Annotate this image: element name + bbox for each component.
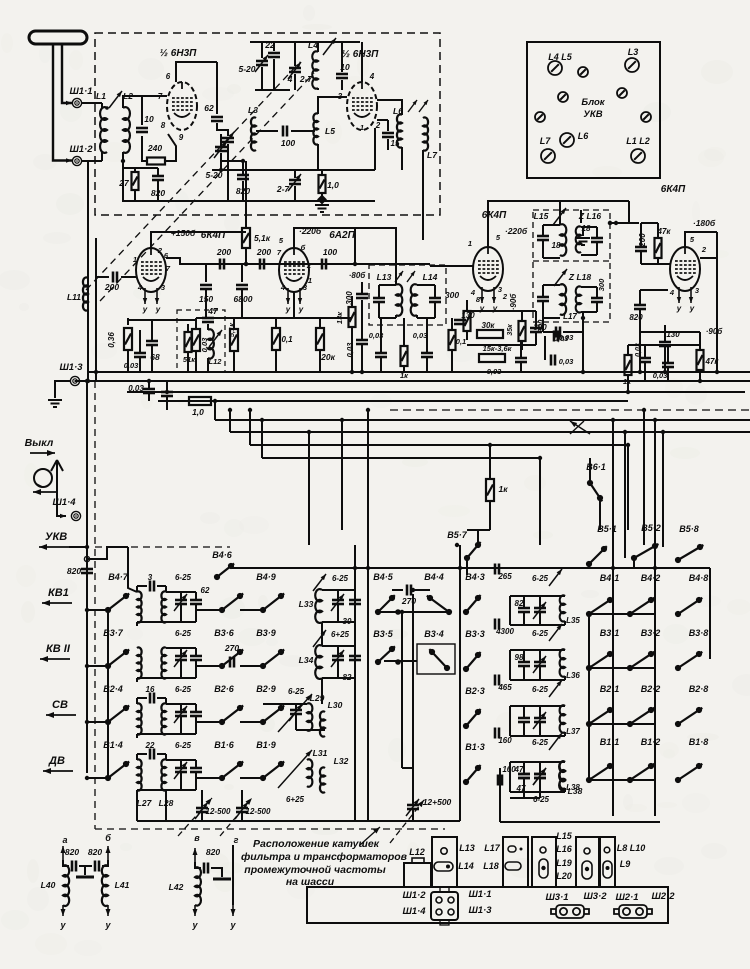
wire AGC line [95,238,97,330]
wire top rail [250,41,360,43]
trimmer arrow [174,594,187,611]
svg-text:у: у [191,920,198,930]
svg-text:20к: 20к [320,352,335,362]
wire [542,318,544,332]
junction [353,566,357,570]
wire [56,474,58,516]
svg-text:160: 160 [498,736,512,745]
svg-text:½ 6Н3П: ½ 6Н3П [160,48,197,59]
wire [40,656,70,662]
wire [588,566,590,568]
coil L11 [83,277,88,310]
wire [137,789,196,791]
capacitor [639,358,651,362]
capacitor [146,341,158,345]
wire [308,432,310,545]
capacitor [95,861,99,872]
junction [608,221,612,225]
box can 4 [576,837,599,887]
wire L3 to 100 [256,130,278,132]
tube cathode/heater arrows [677,287,693,303]
wire [139,357,141,372]
wire [296,703,307,705]
wire [539,458,541,545]
coil L33 [315,589,322,623]
wire [139,330,141,353]
wire cathode rail [128,319,196,321]
svg-text:12-500: 12-500 [206,807,231,816]
svg-text:6-25: 6-25 [532,738,549,747]
switch В2·2 [627,707,654,727]
wire 100 to L5 [291,130,315,132]
screw [578,67,588,77]
wire [220,153,222,170]
svg-text:100: 100 [281,138,295,148]
wire [539,706,541,718]
svg-text:8: 8 [161,121,166,130]
svg-text:Блок: Блок [581,97,605,108]
wire [582,228,584,236]
dashed gang arrow 12-500 a [178,798,212,836]
svg-text:Z L18: Z L18 [568,272,591,282]
svg-text:·220б: ·220б [505,226,528,236]
switch В2·8 [675,707,702,727]
svg-text:L3: L3 [628,47,639,57]
svg-text:Расположение катушек: Расположение катушек [253,838,380,850]
wire coil-cap bus [354,545,356,821]
tube cathode/heater arrows [480,287,496,303]
coil L17 [560,284,566,315]
capacitor [554,331,558,342]
svg-text:300: 300 [445,290,459,300]
coil L7 [423,117,428,150]
wire [322,677,355,679]
svg-text:СВ: СВ [52,699,68,711]
wire to ground [55,381,70,398]
svg-text:В3·7: В3·7 [103,628,124,638]
arrow down [61,905,66,916]
wire [466,560,468,575]
svg-text:16: 16 [146,685,155,694]
junction [86,379,90,383]
trimmer arrow [553,208,566,225]
wire L5 bottom [317,144,319,170]
junction [85,379,89,383]
svg-text:47: 47 [207,306,219,316]
svg-text:L40: L40 [41,880,56,890]
oval [603,861,612,878]
svg-text:б: б [105,833,111,843]
phone jack symbol [34,460,63,487]
svg-text:у: у [59,920,66,930]
wire plate V4 [685,232,717,247]
wire [166,396,168,410]
svg-text:5,1к: 5,1к [254,233,271,243]
wire [261,67,263,90]
wire band feed [86,381,88,773]
wire [564,732,566,736]
trimmer capacitor [534,718,546,722]
svg-text:В3·8: В3·8 [689,628,709,638]
wire row link [589,613,655,615]
screw L1 L2 [631,149,645,163]
wire [180,604,182,622]
wire [42,600,72,606]
capacitor 270 [230,657,234,668]
coil L38 [559,761,565,790]
svg-text:L1 L2: L1 L2 [626,136,650,146]
oval [582,861,592,879]
capacitor [634,305,646,309]
junction [455,543,459,547]
dashed box VHF unit [95,33,440,215]
wire [166,647,196,649]
switch В3·1 [586,651,613,671]
wire [136,754,138,760]
junction [715,370,719,374]
wire [180,592,182,600]
wire [523,666,525,680]
capacitor [537,297,549,301]
switch В3·8 [675,651,702,671]
wire bus [250,444,628,446]
wire [273,42,275,51]
svg-text:·90б: ·90б [509,293,518,311]
wire bus [230,431,750,433]
wire [180,760,182,768]
svg-text:12+500: 12+500 [423,797,452,807]
switch В2·3 [463,709,481,729]
wire [165,754,167,760]
switch В4·1 [586,597,613,617]
coil L4 [312,51,318,88]
screw L6 [560,133,574,147]
wire [378,302,380,318]
box L12 can [404,863,431,887]
hole [604,847,610,853]
wire [221,160,243,162]
capacitor [551,355,555,366]
wire [136,622,138,626]
wire [523,762,525,774]
capacitor [635,247,647,251]
wire [195,704,197,712]
svg-text:В2·8: В2·8 [689,684,709,694]
svg-text:В2·9: В2·9 [256,684,276,694]
capacitor 100 [322,259,326,270]
wire [640,289,668,291]
trimmer arrow [313,574,326,591]
wire [136,678,138,682]
wire [57,505,66,516]
svg-text:4: 4 [669,288,675,297]
wire L7 down out of box [422,150,424,240]
trimmer arrow [214,141,227,158]
junction [638,370,642,374]
wire [101,103,103,108]
coil L34 [315,645,322,679]
junction [608,221,612,225]
wire [582,312,584,372]
coil L31 [307,759,312,786]
trimmer arrow [288,174,301,191]
wire [321,678,323,704]
wire [509,762,511,792]
svg-text:В1·9: В1·9 [256,740,276,750]
wire [543,284,560,286]
ground bar [76,876,94,879]
coil L18 [576,286,581,312]
wire [136,734,138,738]
wire [664,325,666,342]
svg-text:6-25: 6-25 [288,687,305,696]
trimmer arrow [554,269,567,286]
wire [699,332,701,350]
svg-text:200: 200 [256,247,271,257]
svg-text:В4·6: В4·6 [212,550,233,560]
box can 3 [532,837,556,887]
wire [412,768,414,805]
wire [136,586,138,592]
wire г line [232,845,234,905]
wire [165,586,167,592]
svg-text:L30: L30 [328,700,343,710]
ground [315,205,329,212]
wire [127,350,129,372]
arrow on dashed edge [360,827,380,845]
connector Ш3 [551,905,589,918]
wire УКВ to L21 [128,547,137,592]
wire [434,285,436,298]
wire [101,152,103,161]
wire [581,311,597,313]
svg-text:35к: 35к [507,324,514,336]
wire [539,762,541,774]
coil L16 [576,226,581,252]
wire [499,768,501,822]
wire [43,768,73,774]
capacitor [518,718,530,722]
svg-text:L27: L27 [137,798,153,808]
svg-text:В1·1: В1·1 [600,737,620,747]
junction [642,408,646,412]
wire [322,589,355,591]
junction [611,418,615,422]
svg-text:200: 200 [216,247,231,257]
tube cathode/heater arrows [286,288,302,304]
capacitor [72,861,76,872]
wire [195,660,197,678]
capacitor 4300 [495,619,499,630]
ground [48,400,62,407]
wire [180,660,182,678]
tube V2 6А2П [279,248,309,292]
wire [322,621,355,623]
wire [510,797,540,799]
wire L28 to bottom rail [165,790,167,821]
wire [201,790,203,808]
wire [657,258,659,264]
svg-text:L17: L17 [563,312,577,321]
wire [87,310,89,330]
trimmer arrow [209,330,222,347]
junction [147,379,151,383]
wire bus [158,400,628,402]
wire [166,381,168,392]
svg-text:L18: L18 [483,861,499,871]
wire [667,367,669,381]
wire [395,315,397,318]
wire [641,263,670,265]
svg-text:В3·3: В3·3 [465,629,485,639]
switch В1·4 [105,761,129,781]
svg-text:6А2П: 6А2П [329,230,355,241]
wire [564,621,566,625]
wire [535,311,537,328]
svg-text:В3·5: В3·5 [373,629,394,639]
wire [564,788,566,792]
coil L15 [560,224,566,256]
wire plate to 62 [176,62,217,82]
wire plate V2 [294,228,355,248]
wire band feed to switch [87,665,108,667]
svg-text:6К4П: 6К4П [661,184,686,195]
adjust arrows ZZ [395,271,403,282]
wire L6 bottom [401,147,403,170]
capacitor 200 [220,259,224,270]
switch В5-8 [675,544,704,563]
svg-text:Ш2·2: Ш2·2 [651,891,675,902]
wire [596,302,598,312]
wire [509,650,511,680]
wire [643,410,645,545]
junction [411,588,415,592]
svg-text:L19: L19 [556,858,572,868]
svg-text:L5: L5 [325,126,335,136]
wire [354,228,356,264]
capacitor 160 [495,728,499,739]
svg-text:фильтра и трансформаторов: фильтра и трансформаторов [241,851,408,863]
wire [639,290,641,305]
svg-text:1: 1 [360,123,364,132]
dashed gang arrow 12+500 [390,800,424,843]
switch В1·9 [260,761,284,781]
wire [294,170,296,178]
wire [539,722,541,736]
capacitor [349,656,361,660]
switch В4·9 [260,593,284,613]
svg-text:L7: L7 [427,150,438,160]
wire [240,777,263,779]
wire antenna right lead [62,44,72,103]
wire band feed to switch [87,609,108,611]
wire [95,546,230,548]
wire [489,501,491,530]
ground bar [213,878,231,881]
wire [249,410,251,445]
junction [400,610,404,614]
svg-text:9: 9 [179,133,184,142]
junction [488,443,492,447]
wire [227,144,229,201]
wire [509,706,511,736]
node [84,556,89,561]
svg-text:300: 300 [597,278,606,291]
dashed gang line [86,62,300,290]
svg-text:В1·6: В1·6 [214,740,235,750]
svg-text:В4·1: В4·1 [600,573,620,583]
wire [654,420,656,816]
capacitor [518,662,530,666]
coil L40 [63,865,69,906]
wire [523,650,525,662]
svg-text:L12: L12 [409,847,425,857]
wire pin2 down [374,128,376,170]
wire [241,812,243,821]
resistor 0,1 [272,328,280,350]
wire [596,227,598,238]
svg-text:10: 10 [144,114,154,124]
trimmer arrow [549,680,562,697]
wire [195,862,201,868]
switch В3·6 [219,649,243,669]
wire [467,310,536,312]
wire [187,324,189,332]
wire [521,311,523,321]
wire [166,703,196,705]
wire [520,362,522,372]
wire [564,676,566,680]
capacitor [196,808,208,812]
junction [611,566,615,570]
capacitor [349,600,361,604]
wire pin2 to cap [377,119,388,121]
svg-text:L41: L41 [115,880,130,890]
coil L38 [560,761,565,788]
junction [213,399,217,403]
wire [380,357,382,372]
junction [661,430,665,434]
capacitor 160 [498,775,502,786]
svg-text:2-7: 2-7 [276,184,291,194]
switch В6-1 [587,480,603,501]
svg-text:0,03: 0,03 [554,334,569,343]
svg-text:L7: L7 [540,136,551,146]
svg-text:L17: L17 [484,843,501,853]
svg-text:В4·9: В4·9 [256,572,276,582]
wire [95,828,445,830]
svg-text:УКВ: УКВ [45,531,67,543]
dashed left edge of band unit [94,381,96,829]
wire [628,201,630,223]
wire [510,791,565,793]
switch В2·6 [219,705,243,725]
wire [387,139,389,150]
capacitor 200 [113,272,117,283]
capacitor [81,569,93,573]
svg-text:3: 3 [148,573,153,582]
wire Ш1-1 to L1 [82,102,102,104]
wire [467,529,490,531]
wire [351,327,353,372]
svg-text:1: 1 [133,255,137,264]
wire [520,340,522,358]
wire [96,276,109,278]
wire [233,351,235,372]
junction [121,159,125,163]
dashed box IF transformer L13 L14 [369,265,446,325]
wire [510,649,565,651]
